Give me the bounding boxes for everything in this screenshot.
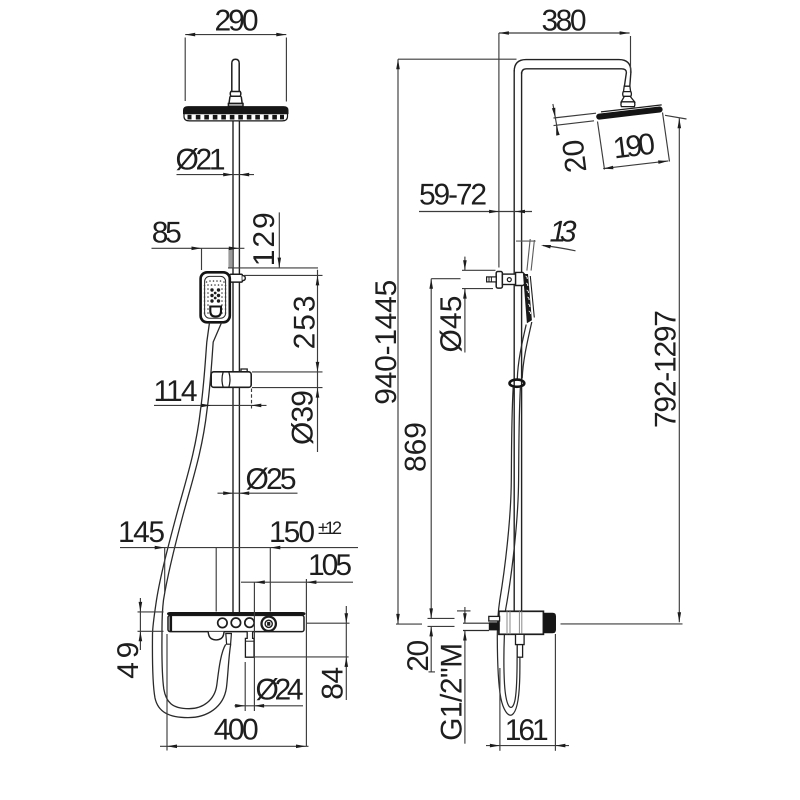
dim 145-150 arrows: [155, 546, 281, 550]
dim 114 lines: [154, 389, 267, 409]
dim 253 and O39 shared line: [244, 270, 323, 452]
shelf knob 2 (front view): [231, 618, 240, 627]
svg-text:84: 84: [316, 667, 349, 700]
dim 400 arrows: [167, 745, 306, 749]
dim 85 lines: [152, 248, 245, 270]
dim 380 arrows: [499, 31, 630, 35]
dim O39 arrows: [316, 388, 320, 398]
dim 145-150 lines: [120, 548, 358, 612]
svg-text:161: 161: [505, 714, 549, 747]
mixer top extension line (side view): [457, 610, 471, 612]
dim O25 arrows: [223, 491, 249, 495]
mixer body (side view): [499, 611, 544, 634]
dim 13 leader arrow: [541, 245, 576, 251]
dim 59-72 lines: [419, 211, 532, 213]
hand shower bracket flange (side view): [496, 272, 502, 289]
hand shower bracket pin (side view): [487, 277, 497, 282]
svg-text:145: 145: [118, 516, 165, 549]
svg-text:13: 13: [550, 216, 577, 249]
svg-text:190: 190: [611, 128, 657, 166]
hose hanging ring (side view): [510, 380, 525, 387]
dim 49 lines: [138, 598, 164, 650]
svg-text:20: 20: [402, 640, 435, 672]
svg-text:85: 85: [152, 217, 182, 250]
dim 105 arrows: [255, 580, 317, 584]
svg-text:Ø39: Ø39: [286, 390, 319, 445]
dim O45 arrows: [463, 260, 467, 298]
dim 129 arrow: [278, 258, 282, 268]
dim 20 head lines: [553, 104, 596, 131]
svg-text:869: 869: [399, 422, 432, 472]
dim O21 arrows: [223, 173, 249, 177]
hand shower tilt reference lines (side view): [516, 239, 536, 271]
top inlet tube (front view): [228, 59, 243, 106]
svg-text:290: 290: [215, 5, 259, 38]
riser pipe (side view): [514, 70, 521, 612]
dim 20 head arrows: [552, 108, 560, 136]
svg-text:792-1297: 792-1297: [650, 310, 683, 428]
dim 253 arrows: [316, 275, 320, 372]
hose outlet dome below shelf (front view): [208, 632, 224, 640]
dim 59-72 arrows: [489, 210, 525, 214]
dim 105 lines: [241, 579, 353, 746]
dim O45 lines: [462, 257, 496, 353]
dim 85 arrows: [192, 247, 239, 251]
dim 84 lines: [255, 606, 350, 700]
dim 792-1297 lines: [561, 115, 687, 624]
svg-text:Ø24: Ø24: [256, 673, 304, 706]
dim 380 lines: [499, 33, 631, 268]
svg-text:20: 20: [557, 138, 594, 175]
dim 129 lines: [228, 212, 318, 268]
dim 792-1297 arrows: [678, 118, 682, 622]
mixer wall fittings (side view): [489, 616, 500, 630]
top reference line: [398, 58, 517, 60]
dim 20 inlet lines: [464, 607, 466, 744]
svg-text:114: 114: [154, 375, 198, 408]
svg-text:±12: ±12: [318, 518, 342, 538]
hand shower handle stub (gray, front view): [228, 249, 232, 268]
mixer inlet stub lines (side view): [463, 623, 489, 630]
dim O24 lines: [235, 662, 304, 711]
hose upper section hand shower to ring (side view): [517, 322, 532, 379]
dim 20 inlet arrows: [463, 613, 467, 640]
dim 114 arrows: [201, 404, 261, 408]
dim 161 lines: [486, 634, 569, 751]
overhead shower head (side view, tilted): [599, 105, 662, 117]
main riser pipe (front view): [233, 121, 239, 612]
overhead shower head (front view, dark cap): [184, 107, 289, 114]
hose connector below shelf (front view): [226, 634, 232, 645]
dim 869 lines: [428, 279, 461, 672]
svg-text:Ø25: Ø25: [246, 463, 297, 496]
svg-text:G1/2"M: G1/2"M: [436, 643, 469, 741]
shower head connector nut (side view): [621, 86, 635, 106]
hand shower head (side view, dark tilted strip): [523, 274, 534, 323]
dim 49 arrows: [139, 602, 143, 641]
shelf temperature knob (front view): [262, 617, 276, 631]
mixer temperature knob (side view, dark): [543, 613, 556, 633]
outlet spout tube below shelf (front view): [245, 632, 254, 657]
svg-text:105: 105: [308, 549, 352, 582]
hand shower bracket arm and clamp (side view): [502, 272, 524, 285]
dim 940-1445 arrows: [396, 59, 400, 624]
overhead shower nozzle band (front view): [184, 114, 288, 121]
dim 400 lines: [160, 634, 309, 751]
top arm with bends (side view): [514, 60, 631, 87]
dim O21 lines: [177, 174, 255, 176]
hand shower head (front view): [201, 272, 230, 322]
svg-text:129: 129: [248, 212, 281, 266]
dim 190 arrows: [603, 160, 668, 169]
svg-text:150: 150: [269, 516, 315, 549]
dim 869 arrows: [429, 279, 433, 637]
dim 290 lines: [185, 35, 286, 102]
dim 940-1445 lines: [396, 59, 422, 624]
svg-text:400: 400: [214, 713, 259, 746]
dim 190 lines: [598, 113, 670, 170]
dim 84 arrows: [345, 613, 349, 667]
shower hose (front view, big loop): [152, 323, 230, 718]
shelf / thermostat bar (front view): [167, 612, 306, 632]
hand shower holder clamp (front view): [230, 274, 246, 282]
svg-text:Ø45: Ø45: [435, 296, 468, 353]
dim 290 arrows: [185, 33, 286, 37]
sliding connector on pipe (front view): [211, 369, 251, 387]
svg-text:59-72: 59-72: [419, 179, 487, 212]
dim O24 arrows: [235, 704, 264, 708]
dim O25 lines: [218, 492, 298, 494]
dim 161 arrows: [490, 744, 566, 748]
shelf knob 1 (front view): [218, 618, 227, 627]
svg-text:Ø21: Ø21: [176, 144, 226, 177]
svg-text:253: 253: [289, 295, 322, 349]
hose lower section and loop (side view): [497, 387, 520, 715]
shelf knob 3 (front view): [245, 618, 254, 627]
outlet fitting below mixer (side view): [516, 634, 525, 657]
